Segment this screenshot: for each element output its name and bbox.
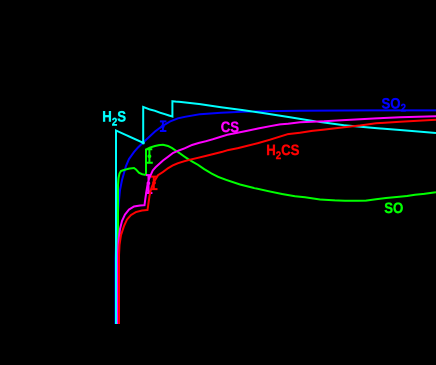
svg-text:SO: SO <box>384 200 403 217</box>
svg-text:CS: CS <box>221 119 239 136</box>
svg-text:H2CS: H2CS <box>266 142 299 162</box>
